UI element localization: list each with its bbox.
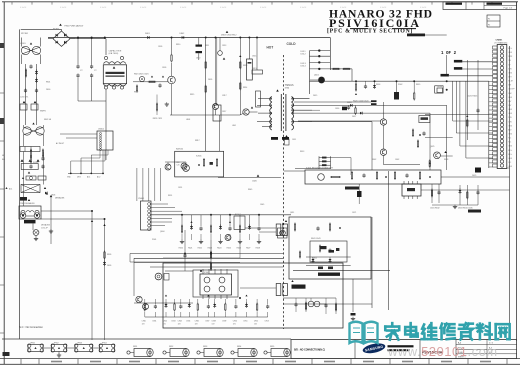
- gnd pfc: [165, 103, 169, 105]
- wire opto left: [245, 227, 276, 229]
- svg-text:R810: R810: [176, 44, 180, 46]
- svg-text:JP904: JP904: [102, 343, 107, 345]
- transistor Q621: [380, 119, 386, 125]
- pwm sub box: [175, 151, 224, 177]
- relay end circles: [20, 213, 40, 219]
- svg-text:D805: D805: [208, 79, 212, 81]
- svg-text:R627: R627: [246, 248, 250, 250]
- svg-text:C951: C951: [243, 320, 247, 322]
- row arrows: [190, 221, 192, 223]
- svg-text:D800: D800: [46, 89, 50, 91]
- parts in pwm box: [198, 158, 218, 167]
- wire left bus: [19, 29, 21, 339]
- svg-text:R626: R626: [237, 248, 241, 250]
- vert x372: [371, 217, 373, 308]
- wire sec y110: [312, 109, 320, 111]
- row bus drops: [182, 215, 259, 226]
- svg-text:SMPS: SMPS: [40, 111, 46, 113]
- sb1 dark marks: [345, 187, 359, 190]
- svg-text:R625: R625: [227, 248, 231, 250]
- pfc ctl parts: [136, 76, 164, 93]
- svg-text:www.520101.com: www.520101.com: [387, 344, 498, 359]
- top right aux box: [487, 15, 500, 27]
- svg-text:C813: C813: [222, 45, 226, 47]
- choke LF802: [23, 122, 44, 146]
- svg-text:C947: C947: [205, 320, 209, 322]
- svg-text:R822: R822: [134, 92, 138, 94]
- fan wires up: [137, 168, 161, 201]
- svg-text:0.1u/0J: 0.1u/0J: [180, 7, 186, 9]
- svg-text:FB95: FB95: [270, 346, 274, 348]
- bottom cluster box: [163, 263, 343, 328]
- circle Q805: [218, 51, 223, 56]
- vertical x205: [205, 38, 207, 152]
- watermark text: [385, 323, 399, 340]
- svg-text:FB91: FB91: [133, 346, 137, 348]
- svg-text:Page 1 of: Page 1 of: [504, 7, 513, 9]
- border ticks left: [0, 45, 4, 333]
- thermistor TH801: [38, 176, 46, 180]
- transformer bottom caps: [271, 137, 278, 140]
- degauss wire 2: [104, 219, 106, 340]
- wire term down: [32, 224, 34, 231]
- wire pin114: [425, 113, 497, 115]
- svg-text:R814: R814: [243, 87, 247, 89]
- svg-text:F802 2A: F802 2A: [44, 118, 52, 121]
- svg-text:FB94: FB94: [237, 346, 241, 348]
- circle X part: [33, 230, 39, 236]
- svg-text:FB93: FB93: [203, 346, 207, 348]
- inner box IC901: [193, 270, 238, 297]
- secondary bus: [310, 80, 489, 82]
- vert x210: [216, 38, 218, 106]
- svg-text:ST-BY: ST-BY: [508, 81, 514, 83]
- right bus x509: [509, 46, 511, 332]
- degauss relay RY801: [19, 206, 41, 219]
- diode D804: [35, 79, 38, 81]
- svg-text:C953: C953: [265, 320, 269, 322]
- svg-text:KA7552: KA7552: [176, 148, 184, 151]
- svg-text:F2: F2: [488, 25, 490, 27]
- wire relay right: [41, 210, 92, 212]
- svg-text:0.1u/0J: 0.1u/0J: [220, 7, 226, 9]
- opto in box: [181, 163, 187, 169]
- jumper J901: [28, 344, 44, 352]
- ground G2: [34, 238, 38, 240]
- left margin arrow: [5, 187, 7, 189]
- svg-text:F1: F1: [488, 19, 490, 21]
- transistor Q601: [318, 77, 325, 84]
- cap C805: [76, 65, 79, 67]
- svg-text:C611: C611: [292, 139, 296, 141]
- wire y304: [284, 303, 372, 305]
- svg-text:C809: C809: [158, 46, 162, 48]
- wire q801: [215, 38, 217, 104]
- svg-text:C671: C671: [352, 212, 356, 214]
- choke LF801: [21, 38, 40, 65]
- wire pin wire c: [459, 81, 461, 146]
- svg-text:C944: C944: [178, 320, 182, 322]
- svg-text:PC601: PC601: [235, 214, 241, 216]
- hang parts right: [431, 184, 479, 205]
- wire pin wire d: [465, 81, 467, 158]
- left edge mark 2: [0, 118, 4, 124]
- varistor row: [20, 101, 38, 110]
- dark label relay: [24, 220, 36, 223]
- svg-text:OPEN: OPEN: [437, 86, 443, 88]
- diode D620: [373, 85, 376, 87]
- mosfet Q611: [278, 228, 288, 238]
- wire y115: [170, 114, 240, 116]
- svg-text:C645: C645: [260, 204, 264, 206]
- svg-text:COLD: COLD: [287, 42, 297, 46]
- parts under SE601: [412, 129, 425, 149]
- small box SE601: [419, 115, 430, 122]
- dark text 202: [20, 197, 27, 201]
- tall box C818: [213, 105, 221, 121]
- cn602 fan: [60, 134, 108, 173]
- wire pin wire b: [455, 81, 457, 133]
- wire y298c: [283, 297, 336, 299]
- diode mark d806: [46, 192, 48, 194]
- svg-text:ZD62: ZD62: [398, 84, 402, 86]
- sub box SB2: [289, 217, 371, 279]
- dark label PC: [292, 285, 306, 289]
- bottom table dividers: [20, 359, 22, 365]
- svg-text:CN801: CN801: [496, 40, 504, 42]
- cap row 1: [24, 89, 27, 91]
- transistor Q801: [213, 104, 219, 110]
- svg-text:AC1: AC1: [9, 188, 12, 191]
- svg-text:0.1u/0J: 0.1u/0J: [260, 7, 266, 9]
- svg-text:R620: R620: [179, 248, 183, 250]
- bottom component row: [144, 299, 146, 304]
- svg-text:D809: D809: [107, 265, 111, 267]
- connector CN801: [497, 45, 507, 169]
- jumper link wires: [43, 347, 52, 349]
- arrow 172: [28, 171, 30, 173]
- wire C671 drop: [352, 279, 354, 312]
- svg-text:Q625: Q625: [430, 146, 434, 148]
- svg-text:C946: C946: [195, 320, 199, 322]
- bottom table line: [0, 358, 520, 360]
- wire y298b: [134, 302, 193, 304]
- title block box: [291, 340, 517, 359]
- wire ladder right vert: [329, 38, 331, 71]
- wire y2625: [134, 262, 240, 264]
- arrow pwm: [257, 174, 260, 176]
- sb1 parts: [318, 171, 431, 180]
- resistor R801: [25, 70, 26, 76]
- wire vert x240a: [239, 243, 241, 258]
- wire to gnd: [50, 196, 52, 244]
- ac dc label: [407, 34, 425, 37]
- pfc transformer L801: [103, 56, 126, 89]
- ladder rung 3: [310, 61, 331, 63]
- svg-text:R628: R628: [444, 159, 448, 161]
- diode D616: [350, 104, 352, 107]
- cap row CX2: [20, 147, 40, 152]
- right area verticals: [447, 55, 478, 140]
- svg-text:C631 R632: C631 R632: [430, 208, 440, 210]
- svg-text:BD801: BD801: [53, 29, 60, 31]
- svg-text:CN602: CN602: [98, 129, 104, 131]
- vert chain x211: [210, 240, 212, 271]
- info cell rows: [458, 342, 494, 359]
- wire pin wire a: [452, 81, 454, 121]
- cap CX1: [29, 65, 32, 67]
- arrow mark D8: [226, 31, 229, 33]
- svg-text:C948: C948: [212, 320, 216, 322]
- transformer T601 secondary: [286, 94, 294, 131]
- opto PC601: [276, 220, 287, 236]
- svg-text:0.1u/0J: 0.1u/0J: [20, 7, 26, 9]
- svg-text:C952: C952: [254, 320, 258, 322]
- jumper labels: [30, 343, 107, 345]
- revision text 1: [446, 3, 463, 5]
- svg-text:COIL 2P: COIL 2P: [41, 228, 49, 230]
- wire sec y121: [312, 121, 372, 123]
- connector comb: [489, 81, 493, 168]
- vert x134: [133, 258, 135, 296]
- svg-text:D803 C812 R812: D803 C812 R812: [221, 35, 237, 37]
- component row mid: [181, 226, 182, 232]
- vert x388: [388, 171, 390, 310]
- svg-text:D616: D616: [347, 102, 352, 104]
- scatter labels E: [290, 159, 399, 214]
- open box: [437, 88, 443, 93]
- wire sb1 left: [284, 170, 305, 172]
- svg-text:R662: R662: [372, 159, 376, 161]
- svg-text:DET: DET: [508, 76, 511, 78]
- sb2 inner box: [310, 241, 347, 262]
- svg-text:AC INLET: AC INLET: [56, 142, 65, 145]
- svg-text:(SW): (SW): [285, 88, 290, 90]
- svg-text:JP902: JP902: [54, 343, 59, 345]
- transistor Q622: [380, 149, 386, 155]
- cap C803: [29, 165, 32, 167]
- svg-text:C817: C817: [222, 111, 226, 113]
- svg-text:B13+: B13+: [508, 48, 512, 50]
- svg-text:0.1u/0J: 0.1u/0J: [140, 7, 146, 9]
- svg-text:(KA 7660): (KA 7660): [109, 52, 119, 55]
- dark diode ZD671: [357, 191, 362, 197]
- wire mosfet: [240, 114, 243, 116]
- transistor Q625: [434, 152, 441, 159]
- cn601 fan wires: [151, 204, 291, 226]
- sb2 inner darks: [320, 246, 327, 249]
- wire y267: [150, 266, 283, 268]
- svg-text:AC1: AC1: [87, 176, 90, 179]
- cap C810 big: [196, 38, 203, 61]
- svg-text:NTC801: NTC801: [21, 33, 28, 35]
- cn602 bus labels: [67, 176, 100, 179]
- svg-text:D633 R634 C635: D633 R634 C635: [458, 208, 473, 210]
- strip left blob: [3, 352, 10, 356]
- svg-text:D629: D629: [472, 175, 476, 177]
- ladder rung 4: [310, 68, 331, 70]
- svg-text:IC801: IC801: [196, 156, 202, 158]
- vertical x219: [219, 115, 221, 151]
- connector CN601: [141, 201, 152, 230]
- left col vert b: [43, 152, 45, 185]
- svg-text:C662: C662: [395, 159, 399, 161]
- box B601: [234, 216, 245, 230]
- left col extra: [30, 156, 44, 165]
- svg-text:R801: R801: [46, 82, 50, 84]
- svg-text:(TO MAIN B/D): (TO MAIN B/D): [495, 41, 508, 44]
- svg-text:RV801: RV801: [33, 162, 38, 164]
- cn602 bus: [68, 172, 104, 174]
- wire x218 drop: [217, 160, 219, 178]
- diode D802: [182, 36, 184, 39]
- svg-text:C941: C941: [152, 320, 156, 322]
- svg-text:RY801 DEGAUSS: RY801 DEGAUSS: [19, 202, 35, 205]
- svg-text:C942: C942: [163, 320, 167, 322]
- svg-text:C625 R625: C625 R625: [467, 96, 478, 98]
- svg-text:R615: R615: [252, 68, 257, 70]
- svg-text:HOT: HOT: [267, 46, 274, 50]
- arrow mark A1: [44, 187, 46, 189]
- jumper J903: [75, 344, 94, 352]
- wire cn pin2: [462, 61, 492, 63]
- samsung logo: [362, 342, 386, 355]
- xbox relay contact: [21, 185, 40, 193]
- part x414: [414, 93, 415, 99]
- transistor Q807: [183, 165, 190, 172]
- dual diode D941: [308, 301, 314, 307]
- svg-text:DEGAUSS: DEGAUSS: [41, 224, 51, 227]
- resistor R620: [355, 84, 356, 90]
- transistor Q803: [168, 76, 176, 84]
- resistor R810: [171, 55, 172, 61]
- wire rung ext: [330, 68, 352, 70]
- part x355: [355, 108, 356, 114]
- diode D617: [360, 112, 362, 115]
- ladder rung 2: [310, 55, 331, 57]
- wire y258: [163, 257, 240, 259]
- svg-text:1 OF 2: 1 OF 2: [441, 52, 457, 56]
- wire cn pin6: [449, 75, 493, 77]
- q625 parts: [429, 146, 448, 168]
- title underline b: [392, 28, 416, 30]
- svg-text:0.1u/0J: 0.1u/0J: [60, 7, 66, 9]
- scatter labels D: [152, 187, 182, 241]
- pfc ctl vert: [171, 63, 173, 76]
- svg-text:C616: C616: [335, 108, 339, 110]
- svg-text:R821 D821 C821: R821 D821 C821: [134, 74, 149, 76]
- fuse mark: [59, 24, 62, 26]
- diode D803: [35, 71, 38, 73]
- svg-text:C817: C817: [222, 95, 227, 97]
- svg-text:D614: D614: [301, 66, 307, 68]
- svg-text:R619: R619: [416, 84, 420, 86]
- cap C620: [364, 85, 367, 87]
- svg-text:C950: C950: [233, 320, 237, 322]
- diode D801: [148, 36, 150, 39]
- svg-text:D612: D612: [301, 54, 307, 56]
- wire ladder left vert: [309, 51, 311, 94]
- svg-text:CX2 CY1: CX2 CY1: [20, 97, 29, 99]
- svg-text:C945: C945: [186, 320, 190, 322]
- svg-text:0.1u/0J: 0.1u/0J: [100, 7, 106, 9]
- scatter labels A: [158, 44, 236, 127]
- arrow mark Q8: [223, 57, 226, 59]
- opto PC941: [155, 273, 162, 280]
- svg-text:R613: R613: [300, 151, 304, 153]
- wire bridge to pfc: [70, 38, 106, 40]
- svg-text:AC2: AC2: [97, 176, 100, 179]
- bottom hang parts: [294, 298, 336, 314]
- watermark icon: [350, 322, 378, 343]
- pfc ctl res: [149, 81, 155, 82]
- svg-text:R823 C825: R823 C825: [153, 118, 162, 120]
- mosfet Q802: [243, 109, 249, 115]
- bridge rectifier BD801: [48, 31, 75, 46]
- cn602 stub dots: [70, 173, 72, 175]
- svg-text:R645: R645: [248, 189, 252, 191]
- svg-text:CN601: CN601: [138, 198, 145, 200]
- bottom row labels: [142, 320, 269, 325]
- svg-text:C943: C943: [171, 320, 175, 322]
- transformer T601 primary: [270, 94, 282, 131]
- res R823: [156, 104, 157, 110]
- zener ZD620: [394, 81, 399, 99]
- opto PC602: [276, 284, 287, 296]
- wire top right: [425, 34, 447, 36]
- cylinder component L93: [197, 346, 223, 357]
- wire vert x130: [129, 254, 131, 263]
- pfc ctl wire y81: [133, 81, 168, 83]
- row labels: [179, 248, 260, 250]
- resistor R612: [344, 68, 350, 69]
- revision text 2: [487, 3, 503, 5]
- box x435: [435, 86, 443, 93]
- wire sec y105: [312, 104, 447, 106]
- dip IC602: [402, 181, 421, 199]
- sb2 parts: [294, 223, 341, 259]
- svg-text:R817: R817: [195, 140, 200, 142]
- wire sec y113: [312, 112, 430, 114]
- revision box: [443, 2, 517, 10]
- right area parts: [466, 108, 479, 127]
- svg-text:L801: L801: [232, 125, 236, 127]
- left edge mark 1: [0, 43, 4, 48]
- wire second bus: [48, 37, 330, 39]
- wire hang gnd: [432, 204, 478, 206]
- svg-text:C949: C949: [222, 320, 226, 322]
- wire cn pin4: [462, 68, 492, 70]
- cap C804: [41, 165, 44, 167]
- svg-text:LF801: LF801: [20, 43, 27, 45]
- svg-text:R624: R624: [217, 248, 221, 250]
- wire sec y121b: [298, 120, 381, 122]
- varistor boxes: [21, 164, 38, 170]
- vert chain x185: [184, 230, 186, 271]
- vertical x240: [239, 38, 241, 116]
- svg-text:[PFC & MULTY SECTION]: [PFC & MULTY SECTION]: [327, 29, 413, 35]
- connector pin labels: [508, 48, 514, 168]
- transistor Q941: [136, 296, 142, 302]
- wire pin137: [425, 136, 453, 138]
- svg-text:B/D : NO CONNECTION(N.C): B/D : NO CONNECTION(N.C): [294, 350, 325, 352]
- svg-text:D617: D617: [352, 116, 356, 118]
- transformer arrow: [276, 89, 279, 91]
- mini ladder R641: [295, 156, 351, 175]
- cylinder component L95: [264, 346, 290, 357]
- wire sb1 right: [441, 176, 510, 178]
- svg-text:C815: C815: [252, 56, 256, 58]
